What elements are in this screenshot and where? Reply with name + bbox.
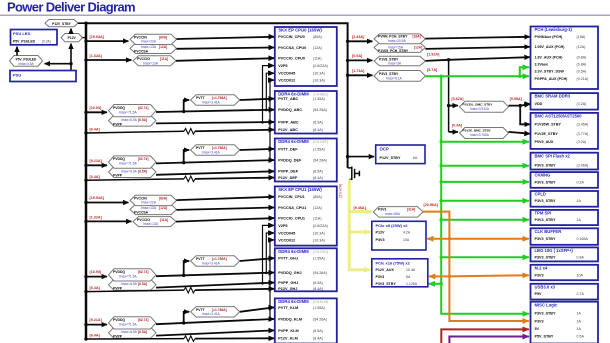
svg-text:1A: 1A (577, 199, 582, 203)
wire P12V up to P12V_STBY (70, 29, 72, 34)
wire PVCCIN out 2 (177, 197, 274, 200)
wire orange P3V3 bus (423, 212, 529, 321)
svg-text:Imax=13A: Imax=13A (143, 222, 159, 226)
svg-text:Imax=22A: Imax=22A (141, 201, 157, 205)
svg-text:PVDDQ: PVDDQ (113, 106, 125, 110)
svg-text:[6.4A]: [6.4A] (90, 175, 101, 179)
svg-text:PVCCIO_CPU0: PVCCIO_CPU0 (278, 57, 305, 61)
svg-text:PVTT: PVTT (196, 308, 206, 312)
svg-text:[6.5A]: [6.5A] (138, 330, 147, 334)
wire red 5V from below (441, 329, 529, 343)
svg-text:P3V3_STBY: P3V3_STBY (535, 312, 556, 316)
arrows into CPU0 (268, 37, 274, 81)
svg-text:PVDDQ_GHJ: PVDDQ_GHJ (278, 271, 301, 275)
svg-text:5A: 5A (406, 275, 411, 279)
svg-text:[1.74A]: [1.74A] (352, 69, 365, 73)
svg-text:[19.94A]: [19.94A] (90, 35, 105, 39)
svg-text:P1V35W_STBY: P1V35W_STBY (535, 123, 562, 127)
wire bus to PVDDQ VR KLM (84, 318, 107, 326)
svg-text:P5V_PSULED: P5V_PSULED (16, 57, 37, 61)
junction PVTT tap GHJ (182, 274, 185, 277)
svg-text:(8.4A): (8.4A) (313, 176, 323, 180)
svg-text:PVPP_KLM: PVPP_KLM (278, 329, 298, 333)
block PCIe x16 (372, 259, 428, 287)
svg-text:PVDDQ_DEF: PVDDQ_DEF (278, 159, 302, 163)
svg-text:(3.2A): (3.2A) (577, 102, 587, 106)
svg-text:(CH-GHJ): (CH-GHJ) (313, 250, 328, 254)
svg-text:[5.7A]: [5.7A] (427, 68, 438, 72)
svg-text:PVCCSA_CPU0: PVCCSA_CPU0 (278, 46, 306, 50)
wire to P1V8 VR (348, 54, 373, 60)
svg-text:[1.32A]: [1.32A] (90, 54, 103, 58)
svg-text:(1.55A): (1.55A) (313, 257, 325, 261)
wire P1V05 out (425, 47, 529, 49)
svg-text:V2P5: V2P5 (278, 64, 287, 68)
wire to PVTT VR ABC (184, 100, 190, 111)
svg-text:P5V_PSULED: P5V_PSULED (13, 39, 36, 43)
svg-text:[19.47A]: [19.47A] (339, 184, 343, 198)
svg-text:VCCD045: VCCD045 (278, 231, 295, 235)
svg-text:[=1.786A]: [=1.786A] (212, 308, 227, 312)
svg-text:Imax=71.5A: Imax=71.5A (119, 162, 137, 166)
svg-text:P5V: P5V (535, 292, 543, 296)
block BMC AST1250 (531, 113, 599, 149)
svg-text:Imax=0.5A: Imax=0.5A (18, 62, 34, 66)
svg-text:TPM SPI: TPM SPI (535, 211, 552, 216)
junction PVTT tap ABC (182, 110, 185, 113)
block LBG 10G ( 1xSFP+) (531, 247, 599, 261)
wire green to LBG (441, 256, 529, 258)
junction green BMC P0V9_AUX (440, 140, 443, 143)
svg-text:(12A): (12A) (313, 46, 322, 50)
junction yellow PCIe x8 (348, 230, 351, 233)
wire VCCD045 feed elbow (265, 73, 273, 111)
svg-text:(3.2A): (3.2A) (577, 140, 587, 144)
svg-text:(CH-DEF): (CH-DEF) (313, 140, 328, 144)
wire green to BMC SPI (441, 165, 529, 167)
svg-text:VCCD045: VCCD045 (278, 72, 295, 76)
svg-text:P3V3: P3V3 (376, 275, 385, 279)
svg-text:1.05V_AUX (PCH): 1.05V_AUX (PCH) (535, 45, 566, 49)
svg-text:P3V3_STBY: P3V3_STBY (535, 180, 556, 184)
svg-text:(80A): (80A) (313, 35, 322, 39)
svg-text:Imax=3A: Imax=3A (388, 62, 402, 66)
svg-text:PVCCSA: PVCCSA (134, 50, 149, 54)
svg-text:P3V3_STBY: P3V3_STBY (379, 72, 399, 76)
wire into P1V2E VR (449, 131, 458, 133)
svg-text:PVPP_GHJ: PVPP_GHJ (278, 281, 298, 285)
junction PVTT tap KLM (182, 321, 185, 324)
svg-text:PVPP: PVPP (113, 174, 123, 178)
wire green to CKMNG (441, 181, 529, 183)
svg-text:DDR4 6x-DIMM: DDR4 6x-DIMM (278, 92, 309, 97)
wire VCCD012 feed elbow (269, 240, 274, 321)
wire green to PCH 3.3Vaux (520, 67, 529, 76)
svg-text:(6.9A): (6.9A) (313, 120, 323, 124)
svg-text:1.8V_AUX (PCH): 1.8V_AUX (PCH) (535, 55, 564, 59)
svg-text:PVPP_DEF: PVPP_DEF (278, 170, 299, 174)
block CPU0 SKX EP CPU0 (275, 27, 337, 86)
junction P1V35 arrow (447, 104, 450, 107)
block CLK BUFFER (531, 228, 599, 245)
svg-text:[0.9A]: [0.9A] (352, 54, 363, 58)
svg-text:[9.21A]: [9.21A] (90, 159, 103, 163)
svg-text:PVCCIN_CPU1: PVCCIN_CPU1 (278, 195, 305, 199)
wire to PVTT VR GHJ (184, 261, 190, 275)
svg-text:Imax=13A: Imax=13A (143, 61, 159, 65)
svg-text:(3.06A): (3.06A) (577, 164, 589, 168)
wire P1V35 out to BMC DRAM (509, 104, 530, 105)
wire PVPP out ABC (156, 122, 274, 123)
block BMC SPI Flash (531, 153, 599, 170)
wire PVCCSA out 2 (177, 208, 274, 210)
svg-text:Imax=3.41A: Imax=3.41A (202, 150, 220, 154)
VR PVNN_PCH_STBY / P1V05_PCH_STBY (374, 34, 425, 53)
svg-text:PVCCIN_CPU0: PVCCIN_CPU0 (278, 35, 305, 39)
wire green to TPM (441, 219, 529, 221)
resistor P12V DIMM DEF (184, 176, 195, 182)
wire bus to P12V DIMM DEF (84, 175, 184, 182)
svg-text:P3V3: P3V3 (535, 319, 544, 323)
wire PVCCIO out 2 (176, 218, 274, 222)
wire to P3V3_STBY VR (348, 69, 373, 75)
svg-text:[18A]: [18A] (413, 35, 421, 39)
svg-text:(CH-ABC): (CH-ABC) (313, 93, 328, 97)
svg-text:[6.4A]: [6.4A] (90, 128, 101, 132)
wire bus to PVCCIN VR 2 (84, 196, 128, 204)
svg-text:[11A]: [11A] (160, 218, 168, 222)
svg-text:[10.93]: [10.93] (90, 106, 102, 110)
wire orange to M.2 (449, 275, 529, 276)
svg-text:[10.93]: [10.93] (90, 270, 102, 274)
block DIMM GHJ (275, 248, 337, 291)
junction green PCIe x16 (440, 282, 443, 285)
block MISC Logic (531, 302, 599, 343)
svg-text:PVTT: PVTT (196, 146, 206, 150)
junction green LBG (440, 256, 443, 259)
junction green CKMNG (440, 180, 443, 183)
svg-text:PVTT_GHJ: PVTT_GHJ (278, 257, 298, 261)
VR PVDDQ/PVPP ABC (109, 105, 157, 127)
svg-text:PCH (Lewisburg-1): PCH (Lewisburg-1) (535, 27, 573, 32)
svg-text:PVPP: PVPP (113, 335, 123, 339)
wire PVTT out DEF (240, 149, 274, 150)
wire PVPP out KLM (156, 330, 274, 335)
label yellow current (339, 184, 343, 198)
svg-text:(10.3A): (10.3A) (313, 72, 325, 76)
node P5V_PSULED (10, 56, 43, 67)
svg-text:Imax=71.5A: Imax=71.5A (119, 275, 137, 279)
VR PVCCIO 1 (133, 56, 176, 66)
svg-text:VCCD012: VCCD012 (278, 238, 295, 242)
svg-text:P12V_DEF: P12V_DEF (278, 176, 298, 180)
wire PVTT out KLM (240, 307, 274, 311)
svg-text:(80A): (80A) (313, 195, 322, 199)
svg-text:0.2A: 0.2A (577, 180, 585, 184)
svg-text:[62.74]: [62.74] (138, 318, 148, 322)
wire bus to PVCCIN VR 1 (84, 35, 128, 43)
svg-text:Imax=6.9A: Imax=6.9A (121, 330, 138, 334)
svg-text:PSU: PSU (13, 72, 21, 77)
svg-text:(1.55A): (1.55A) (313, 147, 325, 151)
VR PVTT ABC (191, 95, 240, 105)
wire yellow to PCIe x8 P12V (349, 231, 370, 234)
svg-text:(10.3A): (10.3A) (313, 238, 325, 242)
svg-text:[31A]: [31A] (407, 208, 415, 212)
VR PVTT DEF (191, 145, 240, 155)
svg-text:(1.55A): (1.55A) (313, 306, 325, 310)
svg-text:PVDDQ: PVDDQ (113, 157, 125, 161)
svg-text:VCCD012: VCCD012 (278, 79, 295, 83)
svg-text:PGPPA_AUX (PCH): PGPPA_AUX (PCH) (535, 77, 569, 81)
svg-text:P1V2E_BMC_STBY: P1V2E_BMC_STBY (463, 129, 492, 133)
arrows into DIMM ABC (268, 99, 274, 130)
svg-text:PVPP_ABC: PVPP_ABC (278, 120, 299, 124)
wire to PVTT VR DEF (184, 150, 190, 163)
svg-text:1A: 1A (577, 319, 582, 323)
svg-text:P3V3_STBY: P3V3_STBY (376, 282, 397, 286)
svg-text:OCP: OCP (380, 147, 389, 152)
wire PVCCIO out 1 (176, 58, 274, 61)
wire resistor to DIMM ABC (195, 130, 274, 132)
wire bus to PVDDQ VR GHJ (84, 270, 107, 278)
block CPU1 SKX EP CPU1 (275, 186, 337, 245)
svg-text:(12A): (12A) (313, 206, 322, 210)
svg-text:[0.55A]: [0.55A] (510, 97, 522, 101)
wire P3V3_STBY green to PCH DSW (425, 75, 529, 77)
wire green to PCIe x16 P3V3_STBY (429, 283, 442, 285)
svg-text:[11A]: [11A] (160, 57, 168, 61)
svg-text:[6.5A]: [6.5A] (138, 282, 147, 286)
VR PVDDQ/PVPP GHJ (109, 269, 157, 291)
wire bus to PVCCIO VR 1 (84, 54, 131, 62)
svg-text:P12V_AUX: P12V_AUX (376, 268, 395, 272)
svg-text:P3V3: P3V3 (376, 238, 385, 242)
arrows into DIMM DEF (268, 149, 274, 178)
svg-text:(18A): (18A) (577, 35, 586, 39)
svg-text:(6.5A): (6.5A) (313, 281, 323, 285)
svg-text:Imax=3.41A: Imax=3.41A (202, 100, 220, 104)
svg-text:PCIe x16 (75W) x2: PCIe x16 (75W) x2 (376, 260, 411, 265)
svg-text:[20.96A]: [20.96A] (424, 203, 439, 207)
svg-text:(0.6/22A): (0.6/22A) (313, 64, 328, 68)
block OCP (376, 145, 425, 164)
block DIMM ABC (275, 91, 337, 134)
wire resistor to DIMM DEF (195, 178, 274, 179)
block DIMM KLM (275, 298, 337, 343)
svg-text:[6.4A]: [6.4A] (90, 286, 101, 290)
block CKMNG (531, 172, 599, 188)
svg-text:CKMNG: CKMNG (535, 173, 551, 178)
wire bus to P12V DIMM KLM (84, 334, 184, 341)
svg-text:BMC AST1250/AST2500: BMC AST1250/AST2500 (535, 114, 583, 119)
svg-text:(6.5A): (6.5A) (313, 329, 323, 333)
svg-text:P12V: P12V (376, 230, 386, 234)
junction PSU feed (69, 62, 72, 65)
wire yellow P12V main down (349, 179, 370, 269)
junction orange CLK row (448, 237, 451, 240)
svg-text:SKX EP CPU0 (165W): SKX EP CPU0 (165W) (278, 28, 322, 33)
svg-text:PVTT: PVTT (196, 96, 206, 100)
svg-text:Imax=3.41A: Imax=3.41A (202, 261, 220, 265)
svg-text:3.3V_STBY_DSW: 3.3V_STBY_DSW (535, 70, 565, 74)
svg-text:PVDDQ_KLM: PVDDQ_KLM (278, 317, 302, 321)
wire PVNN out (425, 37, 529, 39)
wire to PVNN VR (348, 35, 373, 41)
svg-text:[12A]: [12A] (159, 206, 167, 210)
svg-text:(54.26A): (54.26A) (313, 271, 327, 275)
arrows into DIMM GHJ (268, 258, 274, 289)
svg-text:PVDDQ: PVDDQ (113, 318, 125, 322)
wire bus to PVDDQ VR DEF (84, 159, 107, 167)
svg-text:(10.3A): (10.3A) (313, 231, 325, 235)
junction orange M.2 row (448, 275, 451, 278)
svg-text:[=1.786A]: [=1.786A] (212, 96, 227, 100)
svg-text:(11A): (11A) (313, 217, 322, 221)
svg-text:1.125A: 1.125A (406, 282, 418, 286)
block M.2 x4 (531, 265, 599, 280)
wire yellow to P3V3 VR (349, 206, 372, 211)
svg-text:[12A]: [12A] (414, 45, 422, 49)
VR PVTT KLM (191, 307, 240, 317)
svg-text:PSU LED: PSU LED (13, 31, 30, 36)
VR P1V2E_BMC_STBY (452, 123, 509, 138)
svg-text:3.3Vaux: 3.3Vaux (535, 63, 548, 67)
VR P3V3_STBY (374, 68, 438, 81)
svg-text:P1V35L_BMC_STBY: P1V35L_BMC_STBY (463, 102, 494, 106)
svg-text:(0.6/22A): (0.6/22A) (313, 224, 328, 228)
resistor P12V DIMM ABC (184, 128, 195, 134)
wire P1V35 to BMC AST (520, 106, 530, 125)
wire PVDDQ out DEF (156, 160, 274, 163)
junction PVTT tap DEF (182, 161, 185, 164)
wire bus to PVCCIO VR 2 (84, 215, 131, 223)
svg-text:0.5A: 0.5A (577, 335, 585, 339)
svg-text:[80A]: [80A] (159, 35, 167, 39)
junction green main (440, 75, 443, 78)
junction BMC feed (447, 58, 450, 61)
arrows into BMC DRAM and AST (524, 104, 530, 134)
wire to P5V_PSULED (45, 63, 71, 65)
svg-text:PVDDQ: PVDDQ (113, 270, 125, 274)
svg-text:PVCCSA: PVCCSA (134, 211, 149, 215)
svg-text:PCIe x8 (25W) x2: PCIe x8 (25W) x2 (376, 223, 409, 228)
svg-text:(3.45A): (3.45A) (577, 123, 589, 127)
svg-text:[=1.786A]: [=1.786A] (212, 257, 227, 261)
wire V2P5 feed elbow (261, 225, 273, 284)
svg-text:P3V3_STBY: P3V3_STBY (535, 256, 556, 260)
svg-text:PVPP: PVPP (113, 287, 123, 291)
wire P1V2E out (509, 132, 530, 134)
svg-text:VDD: VDD (535, 102, 543, 106)
wire PVTT out GHJ (240, 258, 274, 261)
svg-text:P5V_STBY: P5V_STBY (535, 335, 554, 339)
block USB3.0 x3 (531, 284, 599, 300)
block TPM SPI (531, 210, 599, 225)
wire main P12V bus (85, 23, 88, 339)
svg-text:P12V_KLM: P12V_KLM (278, 337, 298, 341)
svg-text:BMC SRAM DDR3: BMC SRAM DDR3 (535, 94, 571, 99)
svg-text:P12V_STBY: P12V_STBY (380, 156, 401, 160)
svg-text:PVDDQ_ABC: PVDDQ_ABC (278, 108, 302, 112)
svg-text:DDR4 6x-DIMM: DDR4 6x-DIMM (278, 139, 309, 144)
svg-text:0.165A: 0.165A (577, 237, 589, 241)
wire to OCP (348, 156, 375, 158)
svg-text:Imax=3.765A: Imax=3.765A (470, 133, 490, 137)
header separator line (0, 14, 610, 16)
wire resistor to DIMM KLM (195, 337, 274, 339)
wire P12V_STBY to 12V bus (78, 22, 86, 24)
svg-text:CLK BUFFER: CLK BUFFER (535, 229, 562, 234)
svg-text:Power Deliver Diagram: Power Deliver Diagram (7, 0, 135, 15)
VR P1V8_STBY (374, 56, 425, 65)
svg-text:[62.74]: [62.74] (138, 106, 148, 110)
VR PVTT GHJ (191, 256, 240, 266)
svg-text:[12A]: [12A] (159, 45, 167, 49)
svg-text:P12V_STBY: P12V_STBY (52, 22, 71, 26)
arrows into CPU1 (268, 197, 274, 240)
svg-text:[0.9A]: [0.9A] (452, 123, 462, 127)
svg-text:PVTT_ABC: PVTT_ABC (278, 97, 298, 101)
svg-text:6A: 6A (413, 156, 418, 160)
wire bus to P12V DIMM ABC (84, 128, 184, 135)
wire green to CPLD (441, 200, 529, 202)
wire green STBY bus down (441, 76, 529, 314)
svg-text:(3.77A): (3.77A) (577, 132, 589, 136)
svg-text:PVCCSA_CPU1: PVCCSA_CPU1 (278, 206, 306, 210)
svg-text:10.4A: 10.4A (406, 268, 416, 272)
svg-text:(8.4A): (8.4A) (313, 128, 323, 132)
PSU LED block (11, 30, 58, 45)
svg-text:[62.74]: [62.74] (138, 270, 148, 274)
svg-text:PVTT_KLM: PVTT_KLM (278, 306, 298, 310)
wire PSU up to P12V (70, 44, 72, 71)
junction green PCH bracket (518, 75, 521, 78)
svg-text:DDR4 6x-DIMM: DDR4 6x-DIMM (278, 249, 309, 254)
svg-text:[9.21A]: [9.21A] (90, 318, 103, 322)
svg-text:PVTT_DEF: PVTT_DEF (278, 147, 298, 151)
svg-text:[2.43A]: [2.43A] (352, 35, 365, 39)
svg-text:P1V05_PCH_STBY: P1V05_PCH_STBY (378, 49, 409, 53)
svg-text:V2P5: V2P5 (278, 224, 287, 228)
node P12V (61, 34, 83, 42)
VR P3V3 (373, 203, 438, 217)
block PCH (531, 27, 599, 90)
svg-text:(0.8A): (0.8A) (577, 63, 587, 67)
svg-text:(0.5A): (0.5A) (577, 70, 587, 74)
resistor P12V DIMM GHJ (184, 287, 195, 293)
svg-text:[19.94A]: [19.94A] (90, 196, 105, 200)
arrows into DIMM KLM (268, 307, 274, 338)
wire PVPP out GHJ (156, 283, 274, 288)
svg-text:(54.26A): (54.26A) (313, 159, 327, 163)
svg-text:(CH-KLM): (CH-KLM) (313, 300, 328, 304)
svg-text:(6.5A): (6.5A) (313, 170, 323, 174)
transistor Q1 P12V switch (348, 167, 360, 181)
svg-text:5V: 5V (535, 327, 540, 331)
node P12V_STBY (45, 20, 78, 27)
wire orange to PCIe x8 P3V3 (427, 238, 449, 240)
wire V2P5 feed elbow (261, 66, 273, 124)
svg-text:Imax=9.1A: Imax=9.1A (386, 76, 403, 80)
wire P12V_STBY top distribution (86, 23, 348, 168)
block DIMM DEF (275, 139, 337, 182)
svg-text:P3V3: P3V3 (535, 274, 544, 278)
VR PVCCIN/PVCCSA 1 (130, 34, 177, 53)
wire bus to P12V DIMM GHJ (84, 286, 184, 293)
VR PVDDQ/PVPP DEF (109, 156, 157, 178)
svg-text:P3V3_STBY: P3V3_STBY (535, 164, 556, 168)
